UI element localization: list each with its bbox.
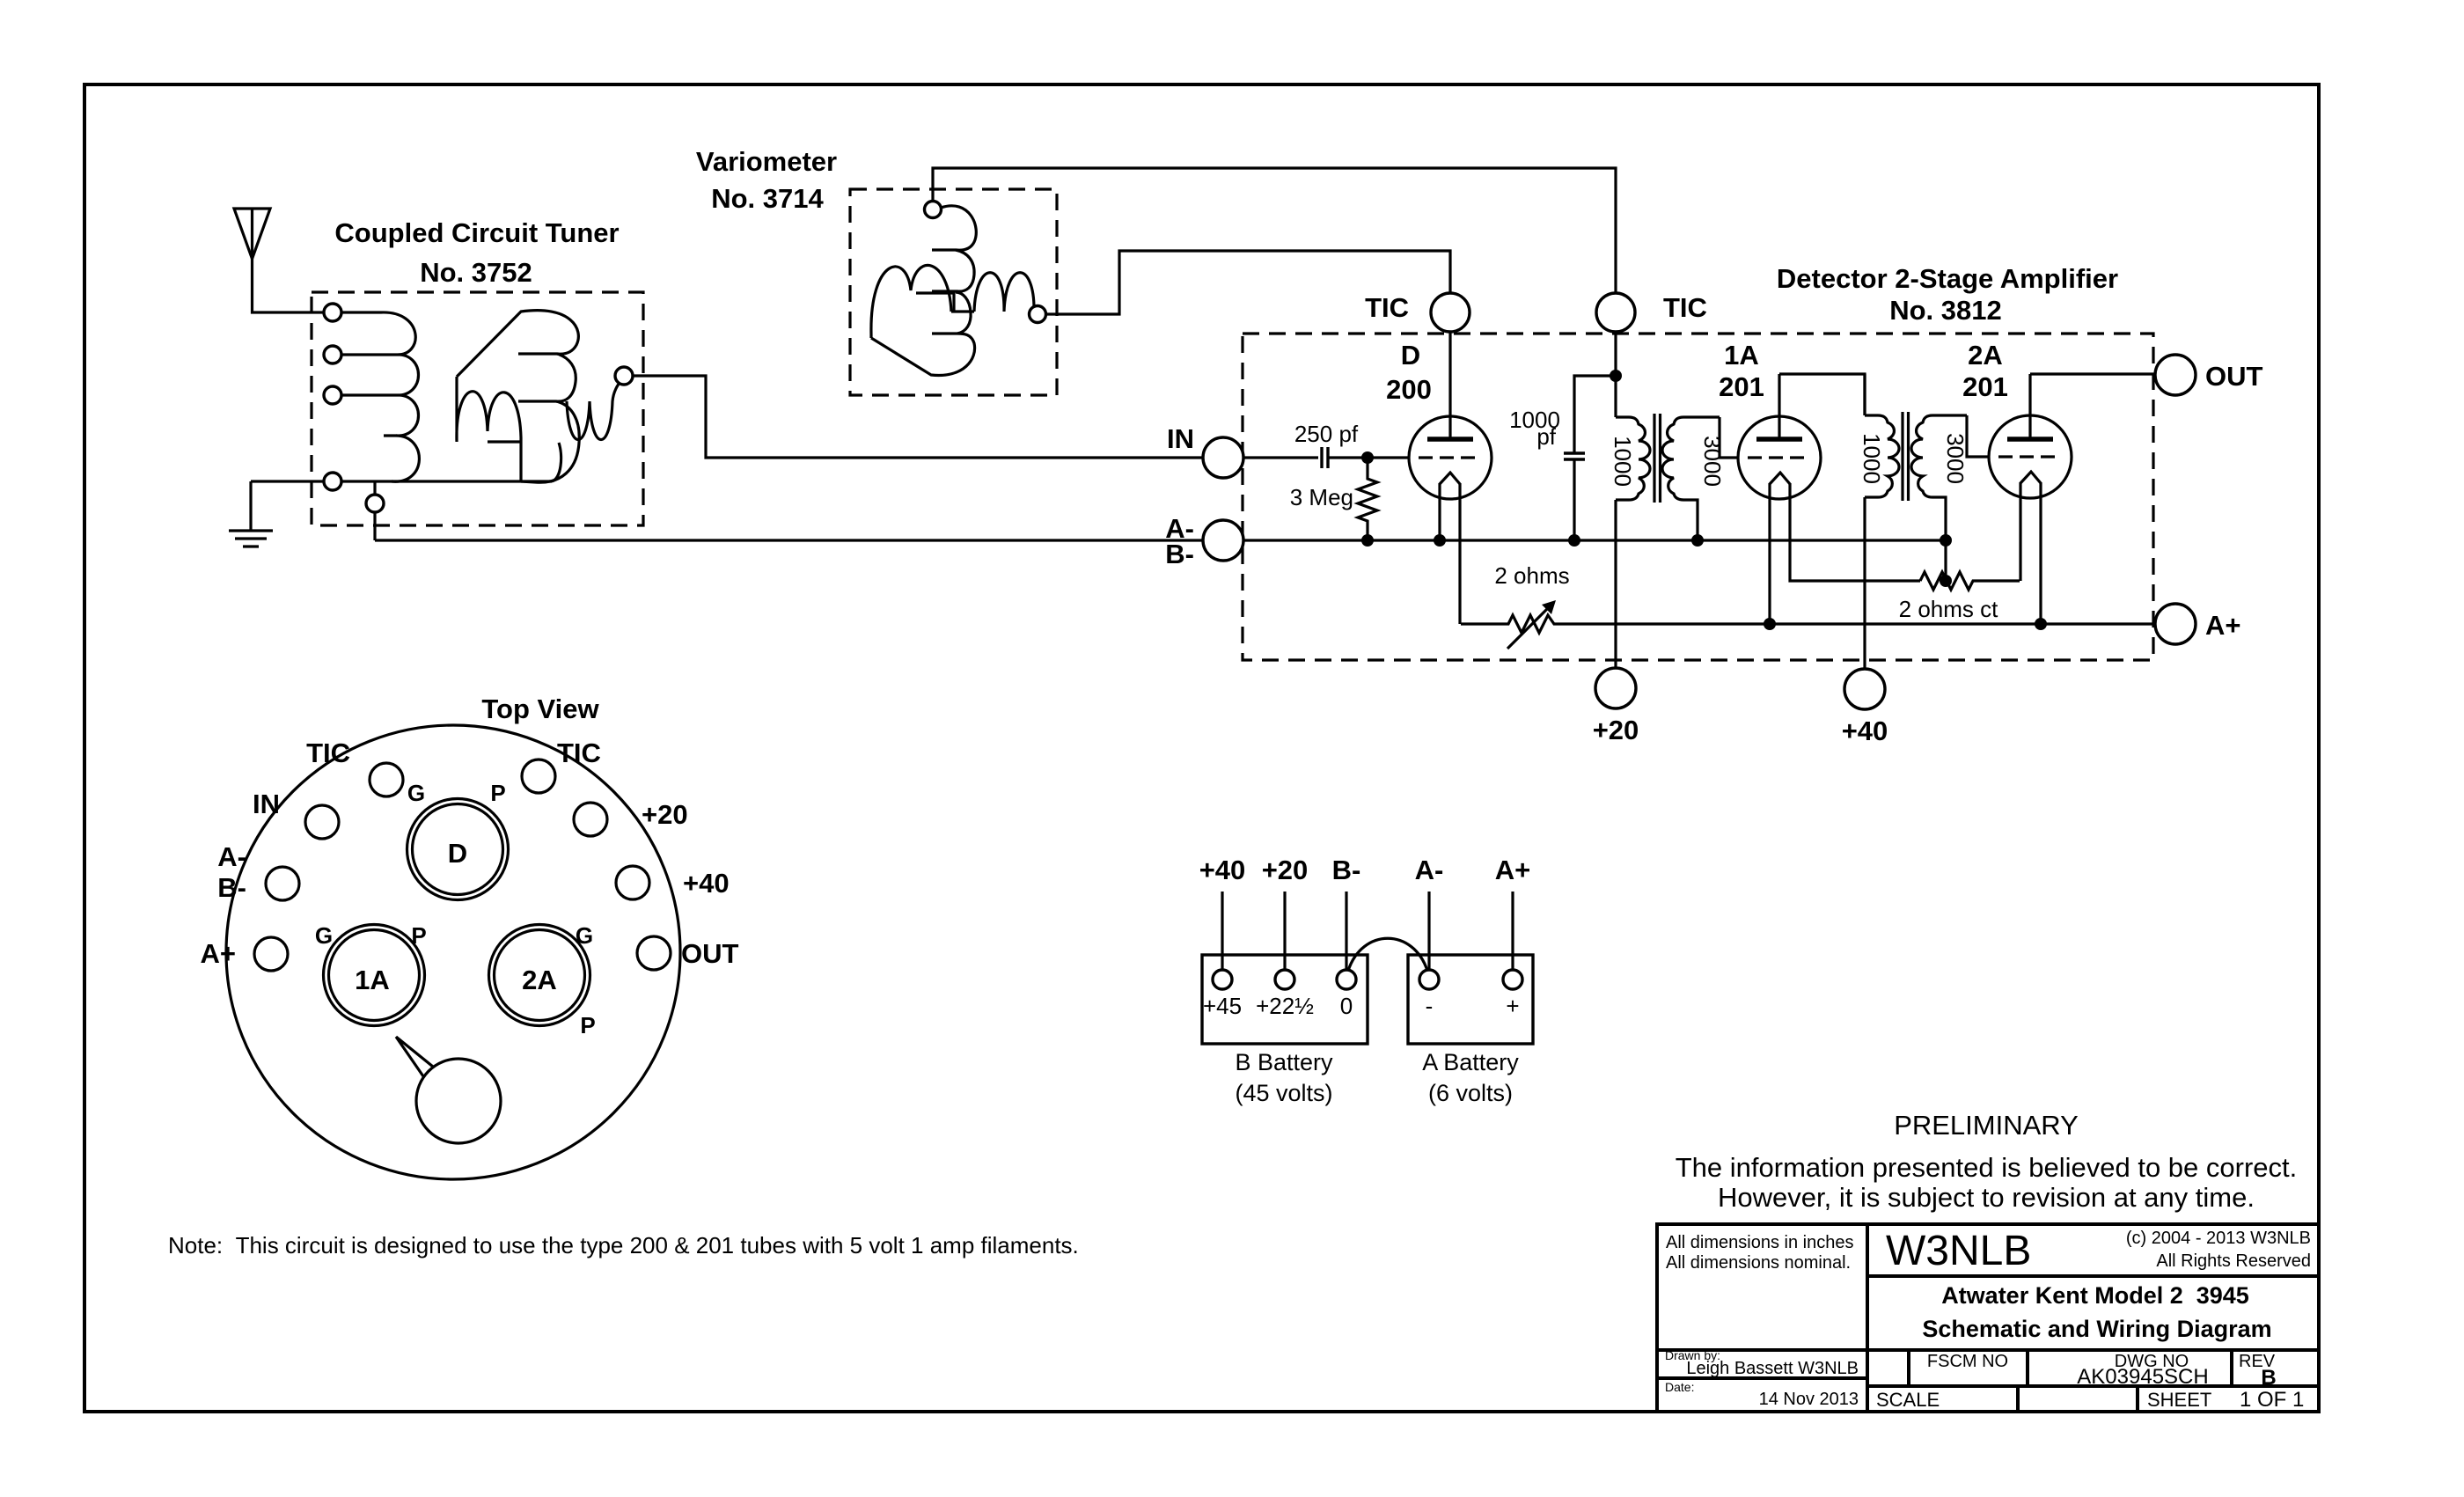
svg-text:G: G: [576, 922, 593, 949]
wire variometer right to TIC1: [1045, 251, 1450, 314]
socket hole OUT: [637, 936, 671, 970]
wire tuner output to IN: [633, 376, 1203, 458]
tube 2A: [1989, 374, 2072, 624]
A+ terminal: [2155, 604, 2196, 644]
svg-text:Date:: Date:: [1665, 1380, 1694, 1394]
svg-text:D: D: [1401, 340, 1420, 371]
svg-text:201: 201: [1719, 371, 1764, 402]
TIC terminal 1: [1431, 293, 1470, 332]
svg-text:PRELIMINARY: PRELIMINARY: [1894, 1110, 2079, 1141]
svg-text:14 Nov 2013: 14 Nov 2013: [1759, 1390, 1859, 1409]
svg-text:B: B: [2261, 1366, 2276, 1390]
svg-text:B-: B-: [1165, 539, 1194, 569]
svg-text:+40: +40: [1842, 715, 1888, 746]
svg-text:+20: +20: [1593, 715, 1639, 745]
tuner output terminal: [615, 367, 633, 385]
svg-text:P: P: [411, 922, 426, 949]
svg-text:G: G: [315, 922, 333, 949]
svg-text:No. 3812: No. 3812: [1889, 295, 2002, 326]
socket plate circle: [226, 725, 680, 1179]
resistor 3 Meg: [1358, 458, 1377, 540]
svg-text:All dimensions in inches: All dimensions in inches: [1666, 1233, 1853, 1252]
svg-text:+20: +20: [1262, 855, 1309, 885]
transformer T2 primary: [1865, 415, 1899, 497]
socket hole +20: [574, 803, 607, 836]
svg-text:TIC: TIC: [1663, 292, 1707, 323]
transformer T1 primary: [1616, 417, 1650, 500]
tuner tap terminal: [373, 481, 376, 540]
svg-text:OUT: OUT: [681, 938, 739, 969]
node: T1 secondary on A- line: [1691, 534, 1704, 547]
svg-text:A+: A+: [1495, 855, 1531, 885]
amplifier dashed box: [1243, 334, 2153, 660]
node: center tap: [1940, 575, 1952, 587]
svg-text:SHEET: SHEET: [2147, 1389, 2211, 1411]
wire variometer top to TIC2: [933, 168, 1616, 293]
node: 1A filament on A+ line: [1764, 618, 1776, 630]
variometer top terminal: [925, 202, 942, 218]
tuner rotor coil L2: [457, 311, 620, 483]
socket tube 1A: [324, 925, 425, 1026]
tuner terminal t2: [324, 346, 341, 363]
wire A-/B- line: [375, 539, 1946, 541]
svg-text:(c) 2004 - 2013 W3NLB: (c) 2004 - 2013 W3NLB: [2126, 1229, 2311, 1248]
svg-text:TIC: TIC: [306, 737, 350, 768]
svg-text:TIC: TIC: [1365, 292, 1409, 323]
svg-text:All dimensions nominal.: All dimensions nominal.: [1666, 1253, 1851, 1273]
wire 1A plate to T2: [1779, 374, 1865, 415]
svg-text:200: 200: [1386, 374, 1432, 405]
node: T2 secondary on A- line: [1940, 534, 1952, 547]
svg-text:A+: A+: [2205, 610, 2241, 641]
variometer coil: [871, 206, 1034, 376]
svg-text:B-: B-: [217, 872, 246, 903]
ground: [229, 481, 273, 547]
svg-text:Coupled Circuit Tuner: Coupled Circuit Tuner: [334, 217, 619, 248]
svg-text:1000: 1000: [1610, 436, 1636, 487]
tuner terminal t4: [324, 473, 341, 490]
OUT terminal: [2155, 355, 2196, 395]
node: 1000pf bottom on A- line: [1568, 534, 1580, 547]
socket tube 2A: [489, 925, 590, 1026]
svg-text:TIC: TIC: [557, 737, 601, 768]
svg-text:P: P: [580, 1012, 595, 1038]
capacitor 1000pf: [1574, 376, 1616, 540]
svg-text:-: -: [1426, 993, 1434, 1019]
svg-text:A Battery: A Battery: [1422, 1049, 1519, 1075]
socket hole TIC right: [522, 760, 555, 793]
wire 2A plate to OUT: [2030, 372, 2155, 375]
svg-text:All Rights Reserved: All Rights Reserved: [2156, 1251, 2311, 1271]
svg-text:SCALE: SCALE: [1876, 1389, 1940, 1411]
wire T1 secondary to 1A grid: [1720, 417, 1738, 458]
node: 3 Meg bottom on A- line: [1361, 534, 1374, 547]
svg-text:OUT: OUT: [2205, 361, 2263, 392]
svg-text:+22½: +22½: [1256, 993, 1314, 1019]
+20 line: [1614, 332, 1617, 668]
svg-text:3000: 3000: [1699, 436, 1726, 487]
svg-text:The information presented is b: The information presented is believed to…: [1676, 1152, 2298, 1183]
tuner terminal ANT: [324, 304, 341, 321]
battery post circles: [1213, 970, 1232, 989]
A-/B- terminal: [1203, 520, 1243, 561]
variometer dashed box: [850, 189, 1057, 395]
capacitor 250pf: [1322, 447, 1328, 468]
socket hole A-B-: [266, 867, 299, 900]
svg-text:1A: 1A: [1724, 340, 1759, 371]
resistor 2 ohms ct: [1920, 572, 2020, 590]
wire tuner bottom: [251, 480, 552, 482]
svg-text:However, it is subject to revi: However, it is subject to revision at an…: [1718, 1182, 2255, 1213]
B battery box: [1202, 955, 1368, 1044]
variometer right terminal: [1030, 306, 1046, 323]
svg-text:Variometer: Variometer: [696, 146, 837, 177]
svg-text:2 ohms ct: 2 ohms ct: [1899, 596, 1998, 622]
node: grid junction: [1361, 451, 1374, 464]
svg-text:W3NLB: W3NLB: [1886, 1228, 2031, 1274]
svg-text:2A: 2A: [1968, 340, 2003, 371]
svg-text:Leigh Bassett W3NLB: Leigh Bassett W3NLB: [1686, 1359, 1859, 1378]
svg-text:2A: 2A: [522, 965, 557, 995]
tuner primary coil L1: [341, 312, 419, 481]
node: D filament on A- line: [1434, 534, 1446, 547]
svg-text:pf: pf: [1536, 423, 1556, 450]
svg-text:2 ohms: 2 ohms: [1494, 562, 1569, 589]
svg-text:A-: A-: [1415, 855, 1444, 885]
svg-text:+45: +45: [1203, 993, 1242, 1019]
svg-text:1A: 1A: [355, 965, 390, 995]
tube D: [1409, 332, 1492, 624]
node: TIC2 / 1000pf junction: [1610, 370, 1622, 382]
socket locator pin: [396, 1037, 433, 1076]
svg-text:3 Meg: 3 Meg: [1290, 484, 1353, 510]
svg-text:P: P: [490, 780, 505, 806]
svg-text:1000: 1000: [1859, 433, 1885, 484]
+40 line: [1863, 374, 1866, 669]
svg-text:No. 3714: No. 3714: [711, 183, 824, 214]
tuner dashed box: [312, 292, 643, 525]
svg-text:AK03945SCH: AK03945SCH: [2077, 1365, 2208, 1389]
svg-text:FSCM NO: FSCM NO: [1927, 1352, 2008, 1371]
transformer T1 secondary: [1662, 417, 1720, 540]
svg-text:G: G: [407, 780, 425, 806]
svg-text:1 OF 1: 1 OF 1: [2240, 1388, 2304, 1412]
svg-text:Top View: Top View: [481, 693, 599, 724]
title block: [1657, 1224, 2319, 1412]
rheostat 2 ohms: [1461, 615, 2155, 633]
tuner terminal t3: [324, 386, 341, 404]
transformer T2 secondary: [1911, 415, 1967, 540]
svg-text:B Battery: B Battery: [1235, 1049, 1333, 1075]
svg-text:A+: A+: [201, 938, 237, 969]
transformer T2 core: [1903, 412, 1909, 501]
svg-text:3000: 3000: [1942, 433, 1969, 484]
svg-text:IN: IN: [253, 789, 280, 819]
socket tube D: [407, 799, 509, 900]
svg-text:Atwater Kent Model 2 3945: Atwater Kent Model 2 3945: [1941, 1282, 2249, 1309]
svg-text:Schematic and Wiring Diagram: Schematic and Wiring Diagram: [1922, 1316, 2271, 1342]
svg-text:201: 201: [1962, 371, 2008, 402]
battery terminals risers: [1222, 892, 1513, 970]
svg-text:(45 volts): (45 volts): [1235, 1080, 1332, 1106]
socket hole A+: [254, 937, 288, 971]
svg-text:+40: +40: [683, 868, 730, 899]
wire T2 secondary to 2A grid: [1967, 415, 1989, 457]
tube 1A: [1738, 374, 1920, 624]
svg-text:A-: A-: [217, 841, 246, 872]
A battery box: [1408, 955, 1533, 1044]
svg-text:0: 0: [1340, 993, 1353, 1019]
svg-text:D: D: [448, 838, 467, 869]
transformer T1 core: [1654, 414, 1661, 503]
node: 2A filament on A+ line: [2035, 618, 2047, 630]
antenna: [234, 209, 324, 312]
wire center tap: [1944, 540, 1947, 581]
IN terminal: [1203, 456, 1318, 459]
svg-text:IN: IN: [1167, 423, 1194, 454]
svg-text:+20: +20: [642, 799, 688, 830]
socket hole TIC left: [370, 763, 403, 796]
svg-text:(6 volts): (6 volts): [1428, 1080, 1513, 1106]
svg-text:250 pf: 250 pf: [1294, 421, 1359, 447]
svg-text:No. 3752: No. 3752: [420, 257, 532, 288]
svg-text:+: +: [1506, 993, 1519, 1019]
socket hole +40: [616, 866, 649, 899]
TIC terminal 2: [1596, 293, 1635, 332]
svg-text:+40: +40: [1199, 855, 1246, 885]
svg-text:Note: This circuit is designe: Note: This circuit is designed to use th…: [168, 1232, 1079, 1259]
battery jumper arc B- to A-: [1348, 938, 1427, 971]
svg-text:B-: B-: [1332, 855, 1361, 885]
svg-text:Detector 2-Stage Amplifier: Detector 2-Stage Amplifier: [1777, 263, 2118, 294]
socket hole IN: [305, 805, 339, 839]
